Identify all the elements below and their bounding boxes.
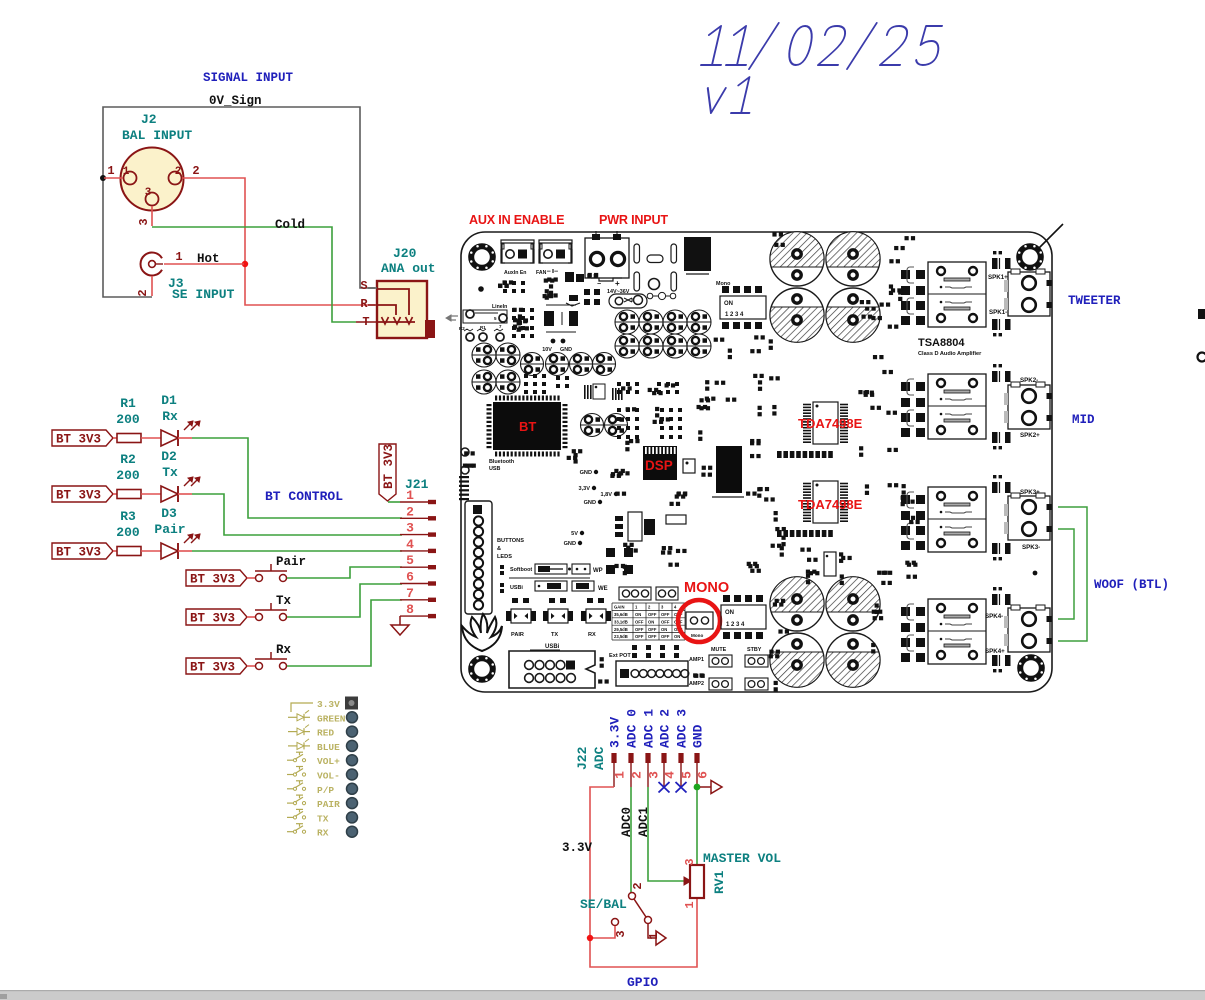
svg-text:BT 3V3: BT 3V3 bbox=[190, 612, 235, 626]
svg-text:Tx: Tx bbox=[276, 594, 292, 608]
svg-text:TWEETER: TWEETER bbox=[1068, 294, 1121, 308]
svg-text:SPK2+: SPK2+ bbox=[1020, 432, 1040, 439]
svg-text:ON: ON bbox=[674, 634, 680, 639]
svg-text:1 2 3 4: 1 2 3 4 bbox=[726, 622, 745, 628]
svg-text:R2: R2 bbox=[459, 326, 465, 331]
svg-text:MUTE: MUTE bbox=[711, 647, 727, 653]
svg-text:ADC 0: ADC 0 bbox=[625, 709, 640, 748]
svg-text:STBY: STBY bbox=[747, 647, 762, 653]
svg-text:200: 200 bbox=[116, 412, 140, 427]
svg-text:TDA7498E: TDA7498E bbox=[798, 497, 863, 512]
svg-text:ADC0: ADC0 bbox=[620, 807, 634, 837]
svg-text:SPK3-: SPK3- bbox=[1022, 544, 1040, 551]
svg-text:GPIO: GPIO bbox=[627, 975, 658, 990]
svg-text:200: 200 bbox=[116, 525, 140, 540]
svg-text:2: 2 bbox=[175, 166, 182, 178]
svg-text:RX: RX bbox=[317, 828, 329, 839]
svg-text:ANA out: ANA out bbox=[381, 261, 436, 276]
svg-text:2: 2 bbox=[630, 771, 645, 779]
svg-text:WP: WP bbox=[593, 568, 603, 574]
svg-text:6: 6 bbox=[406, 570, 414, 585]
svg-text:3: 3 bbox=[683, 858, 697, 865]
svg-text:3: 3 bbox=[137, 218, 151, 225]
svg-text:GND: GND bbox=[580, 470, 592, 476]
svg-text:29,5dB: 29,5dB bbox=[614, 627, 628, 632]
svg-text:BT 3V3: BT 3V3 bbox=[56, 433, 101, 447]
svg-text:TX: TX bbox=[551, 632, 558, 638]
svg-text:Bluetooth: Bluetooth bbox=[489, 459, 514, 465]
svg-text:1 2 3 4: 1 2 3 4 bbox=[725, 312, 744, 318]
svg-text:Rx: Rx bbox=[162, 409, 178, 424]
svg-text:OFF: OFF bbox=[661, 612, 670, 617]
svg-text:OFF: OFF bbox=[635, 627, 644, 632]
svg-text:1: 1 bbox=[175, 250, 182, 264]
svg-text:OFF: OFF bbox=[661, 619, 670, 624]
svg-text:2: 2 bbox=[136, 289, 150, 296]
svg-text:PWR INPUT: PWR INPUT bbox=[599, 213, 668, 227]
svg-text:OFF: OFF bbox=[648, 627, 657, 632]
svg-text:3.3V: 3.3V bbox=[608, 717, 623, 748]
svg-text:SPK4+: SPK4+ bbox=[985, 648, 1005, 655]
svg-text:OFF: OFF bbox=[648, 612, 657, 617]
svg-text:SPK1-: SPK1- bbox=[989, 309, 1007, 316]
svg-text:GREEN: GREEN bbox=[317, 713, 346, 724]
svg-text:5V: 5V bbox=[571, 531, 578, 537]
svg-text:USBi: USBi bbox=[545, 644, 560, 650]
svg-text:Pair: Pair bbox=[276, 555, 306, 569]
svg-text:P/P: P/P bbox=[317, 785, 334, 796]
svg-text:USBi: USBi bbox=[510, 585, 523, 591]
svg-text:MID: MID bbox=[1072, 413, 1095, 427]
svg-text:BT 3V3: BT 3V3 bbox=[56, 546, 101, 560]
svg-text:FAN: FAN bbox=[536, 270, 547, 276]
svg-text:D3: D3 bbox=[161, 506, 177, 521]
svg-text:OFF: OFF bbox=[635, 619, 644, 624]
svg-text:WE: WE bbox=[598, 586, 608, 592]
svg-text:1: 1 bbox=[123, 166, 130, 178]
svg-text:BUTTONS: BUTTONS bbox=[497, 538, 524, 544]
svg-text:BT 3V3: BT 3V3 bbox=[382, 444, 396, 489]
svg-text:ADC1: ADC1 bbox=[637, 807, 651, 837]
svg-text:2: 2 bbox=[192, 164, 199, 178]
svg-text:R: R bbox=[360, 297, 368, 311]
svg-text:DSP: DSP bbox=[645, 458, 673, 473]
svg-text:&: & bbox=[497, 546, 501, 552]
svg-text:R1: R1 bbox=[120, 396, 136, 411]
svg-text:RV1: RV1 bbox=[712, 870, 727, 894]
svg-text:ON: ON bbox=[661, 627, 667, 632]
svg-text:BAL INPUT: BAL INPUT bbox=[122, 128, 192, 143]
svg-text:0V_Sign: 0V_Sign bbox=[209, 94, 262, 108]
svg-text:R2: R2 bbox=[120, 452, 136, 467]
svg-text:PAIR: PAIR bbox=[317, 799, 340, 810]
svg-text:AuxIn En: AuxIn En bbox=[504, 270, 526, 276]
svg-text:Pair: Pair bbox=[154, 522, 185, 537]
svg-text:BT: BT bbox=[519, 419, 536, 434]
svg-text:Rx: Rx bbox=[276, 643, 292, 657]
svg-text:ON: ON bbox=[635, 612, 641, 617]
svg-text:1: 1 bbox=[406, 488, 414, 503]
svg-text:Tx: Tx bbox=[162, 465, 178, 480]
svg-text:OFF: OFF bbox=[661, 634, 670, 639]
svg-text:1: 1 bbox=[107, 164, 114, 178]
svg-text:MONO: MONO bbox=[684, 580, 729, 596]
svg-text:BT 3V3: BT 3V3 bbox=[56, 489, 101, 503]
svg-text:SPK4-: SPK4- bbox=[985, 613, 1003, 620]
svg-text:GND: GND bbox=[584, 500, 596, 506]
svg-text:D1: D1 bbox=[161, 393, 177, 408]
svg-text:ON: ON bbox=[724, 301, 733, 307]
svg-text:3.3V: 3.3V bbox=[317, 699, 340, 710]
svg-text:ADC 2: ADC 2 bbox=[658, 709, 673, 748]
svg-text:Mono: Mono bbox=[691, 633, 703, 638]
svg-text:35,6dB: 35,6dB bbox=[614, 612, 628, 617]
svg-text:ON: ON bbox=[648, 619, 654, 624]
svg-text:−: − bbox=[597, 281, 601, 288]
svg-text:Hot: Hot bbox=[197, 252, 220, 266]
svg-text:4: 4 bbox=[663, 771, 678, 779]
svg-text:OFF: OFF bbox=[635, 634, 644, 639]
svg-text:3.3V: 3.3V bbox=[562, 841, 593, 855]
svg-text:5: 5 bbox=[406, 553, 414, 568]
svg-text:SE/BAL: SE/BAL bbox=[580, 897, 627, 912]
svg-text:LineIn: LineIn bbox=[492, 304, 507, 310]
svg-text:7: 7 bbox=[406, 586, 414, 601]
svg-text:J20: J20 bbox=[393, 246, 417, 261]
svg-text:OFF: OFF bbox=[648, 634, 657, 639]
svg-text:SE INPUT: SE INPUT bbox=[172, 287, 235, 302]
svg-text:D2: D2 bbox=[161, 449, 177, 464]
svg-text:TSA8804: TSA8804 bbox=[918, 337, 965, 349]
svg-text:SIGNAL INPUT: SIGNAL INPUT bbox=[203, 71, 294, 85]
svg-text:1,8V: 1,8V bbox=[600, 492, 612, 498]
svg-text:TDA7498E: TDA7498E bbox=[798, 416, 863, 431]
svg-text:+: + bbox=[615, 279, 620, 288]
svg-text:RX: RX bbox=[588, 632, 596, 638]
svg-text:4: 4 bbox=[406, 537, 414, 552]
svg-text:S: S bbox=[360, 279, 367, 293]
svg-text:AMP2: AMP2 bbox=[689, 681, 704, 687]
svg-text:23,5dB: 23,5dB bbox=[614, 634, 628, 639]
svg-text:SPK2-: SPK2- bbox=[1020, 377, 1038, 384]
svg-text:ADC: ADC bbox=[592, 746, 607, 770]
svg-text:AUX IN ENABLE: AUX IN ENABLE bbox=[469, 213, 564, 227]
svg-text:GND: GND bbox=[691, 724, 706, 748]
svg-text:ADC 1: ADC 1 bbox=[642, 709, 657, 748]
svg-text:8: 8 bbox=[406, 602, 414, 617]
svg-text:═ ǁ═: ═ ǁ═ bbox=[546, 269, 558, 275]
svg-text:Softboot: Softboot bbox=[510, 567, 532, 573]
svg-text:1: 1 bbox=[613, 771, 628, 779]
svg-text:RED: RED bbox=[317, 728, 334, 739]
svg-text:R3: R3 bbox=[120, 509, 136, 524]
svg-text:AMP1: AMP1 bbox=[689, 657, 704, 663]
svg-text:5: 5 bbox=[680, 771, 695, 779]
svg-text:33,1dB: 33,1dB bbox=[614, 619, 628, 624]
svg-text:SPK1+: SPK1+ bbox=[988, 274, 1008, 281]
svg-text:GAIN: GAIN bbox=[614, 605, 624, 610]
svg-text:ON: ON bbox=[725, 610, 734, 616]
svg-text:10V: 10V bbox=[542, 347, 552, 353]
svg-text:GND: GND bbox=[564, 541, 576, 547]
svg-text:LEDS: LEDS bbox=[497, 554, 512, 560]
svg-text:VOL+: VOL+ bbox=[317, 756, 340, 767]
svg-text:BT 3V3: BT 3V3 bbox=[190, 573, 235, 587]
svg-text:3: 3 bbox=[145, 187, 152, 199]
svg-text:2: 2 bbox=[631, 882, 645, 889]
svg-text:TX: TX bbox=[317, 813, 329, 824]
svg-text:ADC 3: ADC 3 bbox=[675, 709, 690, 748]
svg-text:3,3V: 3,3V bbox=[578, 486, 590, 492]
svg-text:Ext POT: Ext POT bbox=[609, 653, 631, 659]
svg-text:BLUE: BLUE bbox=[317, 742, 340, 753]
svg-text:WOOF (BTL): WOOF (BTL) bbox=[1094, 578, 1169, 592]
svg-text:3: 3 bbox=[406, 521, 414, 536]
svg-text:6: 6 bbox=[696, 771, 711, 779]
svg-text:USB: USB bbox=[489, 466, 500, 472]
svg-text:J22: J22 bbox=[575, 746, 590, 770]
svg-text:GND: GND bbox=[560, 347, 572, 353]
svg-text:MASTER VOL: MASTER VOL bbox=[703, 851, 781, 866]
svg-text:1: 1 bbox=[683, 901, 697, 908]
svg-text:200: 200 bbox=[116, 468, 140, 483]
svg-text:Cold: Cold bbox=[275, 218, 305, 232]
svg-text:3: 3 bbox=[614, 930, 628, 937]
svg-text:BT 3V3: BT 3V3 bbox=[190, 661, 235, 675]
svg-text:SPK3+: SPK3+ bbox=[1020, 489, 1040, 496]
svg-text:VOL-: VOL- bbox=[317, 771, 340, 782]
svg-text:Class D Audio Amplifier: Class D Audio Amplifier bbox=[918, 351, 982, 357]
svg-text:3: 3 bbox=[647, 771, 662, 779]
svg-text:2: 2 bbox=[406, 504, 414, 519]
svg-text:PAIR: PAIR bbox=[511, 632, 524, 638]
svg-text:J2: J2 bbox=[141, 112, 157, 127]
svg-text:BT CONTROL: BT CONTROL bbox=[265, 489, 343, 504]
